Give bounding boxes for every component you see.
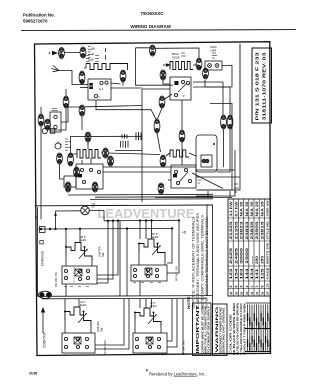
P6b stub bbox=[122, 82, 124, 86]
svg-text:SW.: SW. bbox=[99, 327, 103, 332]
connector P6 bbox=[79, 71, 85, 84]
E3 left lead bbox=[71, 153, 77, 155]
svg-text:6.7 KW: 6.7 KW bbox=[234, 201, 238, 217]
harness bottom bar bbox=[245, 351, 270, 353]
connector P1 bbox=[59, 48, 65, 59]
diagram outer frame bbox=[35, 42, 271, 356]
rail 2 bbox=[42, 297, 207, 300]
E4 leads bbox=[166, 153, 170, 156]
svg-text:COOKTOP: COOKTOP bbox=[43, 332, 47, 348]
svg-text:STYLE NO.: STYLE NO. bbox=[266, 220, 270, 239]
connector P3 bbox=[150, 45, 156, 56]
svg-text:23835: 23835 bbox=[250, 221, 254, 239]
chassis ground connector bbox=[39, 291, 52, 298]
svg-text:1500: 1500 bbox=[245, 248, 249, 264]
svg-text:141: 141 bbox=[255, 268, 259, 279]
junction m bbox=[171, 227, 173, 229]
lamp wire left bbox=[56, 210, 81, 212]
loop inner wire2 bbox=[229, 87, 231, 115]
box2 X switch mark bbox=[145, 268, 152, 275]
wire y106 to spine bbox=[85, 106, 142, 107]
B2 left lead bbox=[163, 80, 170, 84]
ratings table bbox=[228, 199, 271, 296]
svg-text:LF 8": LF 8" bbox=[150, 303, 156, 305]
clock block bbox=[88, 79, 111, 100]
LR surface unit bbox=[65, 307, 91, 326]
broil left lead bbox=[163, 64, 166, 66]
terminal arrow L1 bbox=[52, 51, 58, 55]
sw2 leads bbox=[138, 253, 140, 266]
enclosure lower feed bbox=[142, 88, 170, 90]
svg-text:250: 250 bbox=[255, 256, 259, 264]
connector P12 bbox=[57, 153, 63, 164]
svg-text:ELEM.: ELEM. bbox=[150, 306, 157, 308]
mid drops2 bbox=[126, 229, 128, 297]
diagonal wire B4 to loop bbox=[192, 173, 223, 189]
svg-text:TEO6X0XC: TEO6X0XC bbox=[141, 11, 165, 16]
svg-text:8: 8 bbox=[234, 286, 238, 288]
wire P3 to P4 bbox=[155, 48, 199, 58]
sw3 leads2 bbox=[90, 326, 92, 334]
B1 left lead a bbox=[80, 84, 88, 86]
harness bundle wires bbox=[248, 305, 271, 352]
svg-text:GAGE: GAGE bbox=[266, 267, 270, 279]
connector P13b bbox=[74, 167, 80, 177]
junction k bbox=[145, 219, 147, 221]
table row lines bbox=[233, 199, 264, 296]
RF infinite switch bbox=[131, 265, 167, 281]
svg-text:R P: R P bbox=[99, 88, 104, 92]
harness bundle top bar bbox=[246, 302, 270, 304]
rail 1 bbox=[38, 295, 213, 298]
loop inner wire bbox=[222, 82, 224, 115]
svg-text:144: 144 bbox=[245, 268, 249, 279]
svg-text:38: 38 bbox=[234, 291, 238, 295]
svg-text:23815: 23815 bbox=[260, 221, 264, 239]
thermostat block bbox=[170, 77, 191, 100]
element label marks bbox=[86, 56, 99, 62]
svg-text:34: 34 bbox=[245, 291, 249, 295]
svg-text:3: 3 bbox=[255, 286, 259, 288]
loop stub right bbox=[229, 191, 231, 198]
broil right lead bbox=[193, 64, 199, 66]
wire label blob cluster bbox=[121, 141, 129, 149]
svg-text:WIRING DIAGRAM: WIRING DIAGRAM bbox=[130, 24, 170, 29]
right drop x240 bbox=[196, 155, 240, 190]
svg-text:4.1 KW: 4.1 KW bbox=[229, 201, 233, 217]
svg-text:TO CONDUIT BOX SUPPLY: TO CONDUIT BOX SUPPLY bbox=[208, 305, 211, 354]
B1 right wires bbox=[111, 87, 142, 89]
svg-text:WATTS 240: WATTS 240 bbox=[266, 242, 270, 264]
svg-text:NECESSARY, COMPARABLE WIRE, T: NECESSARY, COMPARABLE WIRE, TERMINALS bbox=[201, 215, 205, 309]
connector P4 bbox=[196, 58, 202, 70]
junction f bbox=[107, 220, 109, 222]
sw3 leads bbox=[64, 321, 66, 334]
B3 top lead 1 bbox=[81, 160, 83, 164]
door switch right wire bbox=[61, 107, 82, 122]
cooktop arrow bbox=[41, 307, 45, 313]
svg-text:2485: 2485 bbox=[234, 248, 238, 264]
svg-text:N/A 30: N/A 30 bbox=[245, 201, 249, 216]
connector P23 bbox=[159, 96, 165, 108]
cooktop drop bbox=[42, 319, 44, 334]
B1 bottom lead bbox=[95, 100, 97, 103]
svg-text:BK: BK bbox=[92, 48, 96, 51]
sw1 feed b bbox=[79, 229, 81, 243]
connector P7 bbox=[160, 70, 166, 80]
svg-text:SURF. KW: SURF. KW bbox=[266, 200, 270, 216]
B2 bottom to P25 bbox=[181, 100, 183, 130]
svg-text:21325: 21325 bbox=[229, 221, 233, 239]
selector lever bbox=[179, 172, 188, 182]
sw4 leads bbox=[134, 322, 136, 334]
B2 to P23 lead bbox=[165, 94, 172, 99]
sw4 spine link bbox=[182, 299, 184, 355]
svg-text:123: 123 bbox=[229, 268, 233, 279]
marks above table bbox=[234, 184, 239, 192]
harness labels upper bbox=[247, 313, 271, 330]
junction lamp drop bbox=[54, 214, 56, 216]
bundle wire b bbox=[95, 196, 213, 199]
svg-text:5995272670: 5995272670 bbox=[23, 18, 48, 23]
connector P6b bbox=[120, 70, 126, 82]
svg-text:Publication No.: Publication No. bbox=[23, 13, 55, 18]
sw4 feed a bbox=[139, 299, 141, 308]
svg-text:350: 350 bbox=[260, 256, 264, 264]
svg-text:SERVICE: IF REPLACEMENT OF TE: SERVICE: IF REPLACEMENT OF TERMINALS bbox=[192, 217, 196, 309]
header rule bbox=[21, 30, 296, 31]
box1 X switch mark bbox=[75, 269, 82, 276]
P23-P24 link bbox=[158, 108, 163, 119]
svg-text:N/A 30: N/A 30 bbox=[250, 201, 254, 216]
B4 filled terminal bbox=[173, 174, 177, 177]
svg-text:6: 6 bbox=[240, 286, 244, 288]
P11 stub bbox=[87, 142, 89, 149]
sw4 leads2 bbox=[160, 327, 162, 334]
sw2 leads2 bbox=[164, 258, 166, 266]
broil element arrow bbox=[166, 63, 171, 67]
junction g bbox=[112, 220, 114, 222]
B4 left lead bbox=[168, 179, 171, 181]
B1 right diag bbox=[111, 83, 121, 84]
bundle wire c bbox=[90, 198, 213, 201]
junction n bbox=[178, 219, 180, 221]
bake element bbox=[86, 64, 128, 71]
P9 top wire bbox=[40, 107, 42, 114]
oven light symbol bbox=[81, 206, 90, 215]
lower cross wire bbox=[155, 197, 232, 199]
svg-text:23833: 23833 bbox=[245, 221, 249, 239]
door latch box bbox=[64, 176, 76, 187]
part number box bbox=[252, 48, 272, 123]
loop stub left bbox=[207, 191, 209, 198]
chassis terminal mark bbox=[40, 241, 43, 244]
bake element left lead bbox=[84, 64, 86, 69]
svg-text:23505: 23505 bbox=[255, 221, 259, 239]
B4 right wires2 bbox=[196, 176, 240, 178]
sw2 bottom bbox=[139, 281, 141, 296]
wire code marks bbox=[88, 47, 93, 61]
svg-text:ZN: ZN bbox=[266, 284, 270, 288]
P25 to B4 bbox=[181, 142, 183, 165]
thermostat lever bbox=[178, 84, 186, 92]
sw1 feed a bbox=[65, 229, 67, 247]
svg-text:6: 6 bbox=[229, 286, 233, 288]
svg-text:N/A 35: N/A 35 bbox=[260, 201, 264, 216]
P10 lower bbox=[81, 116, 83, 130]
svg-text:ST: ST bbox=[266, 291, 270, 295]
box terminal label marks bbox=[64, 283, 164, 355]
important box bbox=[193, 303, 212, 356]
lamp left drop bbox=[55, 211, 57, 229]
upper surface element bbox=[77, 150, 101, 159]
connector P25 bbox=[179, 130, 185, 142]
svg-text:NOTE:: NOTE: bbox=[187, 295, 191, 309]
svg-text:23823: 23823 bbox=[240, 221, 244, 239]
svg-text:8: 8 bbox=[260, 286, 264, 288]
door switch marks bbox=[52, 109, 58, 111]
junction e bbox=[79, 228, 81, 230]
door switch block bbox=[50, 112, 61, 132]
box4 X switch mark bbox=[146, 337, 153, 344]
connector P5 bbox=[203, 68, 209, 79]
sw1 right feeds bbox=[97, 221, 108, 283]
sw4 feed b bbox=[145, 299, 147, 308]
svg-text:134: 134 bbox=[250, 268, 254, 279]
top feed corner wire bbox=[136, 48, 173, 85]
svg-text:LEADVENTURE: LEADVENTURE bbox=[98, 206, 195, 221]
sw4 right feed bbox=[167, 299, 172, 341]
RF surface unit bbox=[139, 239, 165, 258]
svg-text:RR INF. SW.: RR INF. SW. bbox=[54, 271, 58, 287]
svg-text:ELEM.: ELEM. bbox=[80, 240, 87, 242]
B4 right wires bbox=[196, 169, 235, 171]
svg-text:CHASSIS: CHASSIS bbox=[41, 250, 45, 266]
svg-text:125: 125 bbox=[260, 268, 264, 279]
connector P8 bbox=[63, 96, 69, 108]
svg-text:C: C bbox=[99, 95, 101, 99]
connector P13 bbox=[68, 153, 74, 166]
P9 bottom wire bbox=[40, 126, 42, 220]
connector P15 bbox=[108, 156, 114, 166]
sw1 right feeds3 bbox=[97, 221, 118, 275]
P8 lower wire bbox=[50, 108, 66, 130]
B1 left lead b bbox=[80, 87, 88, 89]
wire arrow to connector bbox=[58, 52, 62, 54]
E3 to right bbox=[108, 153, 160, 155]
sw2 feed c bbox=[151, 221, 153, 240]
junction j bbox=[139, 219, 141, 221]
svg-text:L2: L2 bbox=[183, 230, 187, 234]
svg-text:4: 4 bbox=[245, 286, 249, 288]
svg-text:WARNING: WARNING bbox=[215, 306, 219, 353]
junction l bbox=[150, 219, 152, 221]
broil tick marks bbox=[181, 53, 186, 56]
junction d bbox=[65, 228, 67, 230]
P12 down bbox=[60, 164, 65, 179]
P24 down link bbox=[157, 133, 161, 152]
svg-text:38: 38 bbox=[229, 291, 233, 295]
connector P2 bbox=[80, 47, 86, 58]
connector P16 bbox=[160, 155, 166, 167]
right spine bbox=[212, 206, 214, 356]
sw1 right feeds2 bbox=[97, 221, 113, 279]
svg-text:N/A 25: N/A 25 bbox=[255, 201, 259, 216]
spine2 bbox=[206, 204, 208, 296]
svg-text:2425: 2425 bbox=[229, 248, 233, 264]
junction h bbox=[117, 220, 119, 222]
left drop bbox=[37, 207, 39, 296]
wire splay to element bbox=[59, 71, 80, 85]
svg-text:3000: 3000 bbox=[240, 248, 244, 264]
svg-text:33: 33 bbox=[255, 291, 259, 295]
connector P10 bbox=[79, 105, 85, 116]
svg-text:———: ——— bbox=[250, 256, 254, 264]
svg-text:01/96: 01/96 bbox=[29, 371, 37, 375]
B2 filled terminal bbox=[175, 81, 179, 85]
B2 right wire 2 bbox=[193, 86, 230, 88]
tick marks near B4 right bbox=[198, 177, 202, 183]
connector P22 bbox=[227, 115, 233, 129]
light label marks bbox=[65, 139, 71, 150]
E3 right wire bbox=[101, 152, 103, 154]
svg-text:LR INF. SW.: LR INF. SW. bbox=[103, 340, 107, 355]
sw3 feed b bbox=[78, 299, 80, 307]
B4 to loop wire1 bbox=[103, 166, 196, 168]
LF infinite switch bbox=[133, 333, 167, 353]
broil element bbox=[170, 62, 193, 70]
sw2 right feed bbox=[167, 228, 172, 263]
loop outer bbox=[198, 104, 232, 191]
svg-text:2600W: 2600W bbox=[172, 57, 180, 60]
box3 X switch mark bbox=[74, 337, 81, 344]
upper section boundary line bbox=[35, 204, 213, 207]
harness labels lower bbox=[247, 336, 271, 351]
selector block bbox=[171, 165, 196, 188]
B4 to loop wire2 bbox=[103, 171, 171, 173]
RR infinite switch bbox=[62, 266, 97, 284]
svg-text:21355: 21355 bbox=[234, 221, 238, 239]
svg-text:1: 1 bbox=[250, 286, 254, 288]
sw1 dashed divider bbox=[73, 267, 75, 283]
E4 right lead bbox=[189, 153, 196, 156]
connector P14 bbox=[103, 148, 109, 158]
junction b bbox=[49, 228, 51, 230]
lower broil element bbox=[170, 150, 189, 157]
table column lines bbox=[228, 218, 271, 289]
svg-text:38: 38 bbox=[260, 291, 264, 295]
small square component bbox=[50, 129, 55, 134]
B2 right wire 1 bbox=[193, 81, 223, 83]
mid drops bbox=[119, 221, 121, 297]
B1 drop to y110 bbox=[96, 103, 157, 120]
LR infinite switch bbox=[62, 333, 95, 353]
receptacle tick marks bbox=[212, 53, 217, 58]
mid spine x142 bbox=[141, 89, 143, 202]
sw2 feed b bbox=[145, 221, 147, 239]
svg-text:RF 8": RF 8" bbox=[152, 234, 158, 236]
svg-text:RR 6": RR 6" bbox=[80, 237, 86, 239]
P8 wires bbox=[65, 89, 67, 96]
junction c bbox=[54, 228, 56, 230]
receptacle connector box bbox=[201, 143, 215, 167]
sw3 feed a bbox=[64, 299, 66, 312]
svg-text:IMPORTANT: IMPORTANT bbox=[195, 305, 200, 354]
sw3 right feed2 bbox=[95, 299, 129, 349]
connector P9b bbox=[45, 119, 51, 130]
right drop x235 bbox=[196, 150, 235, 196]
P22 down bbox=[217, 129, 230, 172]
wire y136 bbox=[71, 136, 143, 153]
svg-text:P/N 131 S 018 F 233: P/N 131 S 018 F 233 bbox=[254, 52, 259, 121]
bus upper bbox=[104, 219, 180, 222]
connector P11 bbox=[85, 132, 91, 142]
terminal block on bus bbox=[40, 227, 46, 233]
svg-text:OVEN: OVEN bbox=[210, 47, 217, 49]
sw2 feed a bbox=[139, 221, 141, 239]
cross wire y150 bbox=[115, 150, 142, 152]
sw4 right feed2 bbox=[167, 299, 177, 347]
svg-text:LT.: LT. bbox=[92, 206, 95, 209]
wire label blobs y136 bbox=[122, 132, 141, 140]
svg-text:LF INF. SW.: LF INF. SW. bbox=[182, 340, 186, 355]
B3 top lead 2 bbox=[90, 158, 92, 164]
lamp wire right bbox=[89, 209, 104, 211]
wire receptacle right bbox=[205, 66, 232, 88]
connector P24 bbox=[154, 119, 160, 133]
upper section right boundary bbox=[239, 44, 241, 155]
LF surface unit bbox=[135, 308, 161, 327]
svg-text:TYPE, GAGE AND TERMINALS MUST: TYPE, GAGE AND TERMINALS MUST BE USED. bbox=[205, 216, 209, 309]
svg-text:31: 31 bbox=[250, 291, 254, 295]
sw1 leads2 bbox=[91, 261, 93, 266]
connector P19 bbox=[92, 182, 98, 192]
warning box bbox=[213, 304, 228, 356]
svg-text:SERVICING UNIT. GROUND.: SERVICING UNIT. GROUND. bbox=[223, 307, 226, 353]
connector P20 bbox=[158, 183, 164, 194]
sw1 leads bbox=[65, 256, 67, 266]
connector P18 bbox=[65, 182, 71, 192]
svg-text:LAMP: LAMP bbox=[210, 50, 217, 53]
svg-text:P: P bbox=[183, 94, 185, 98]
small circle component bbox=[42, 128, 47, 133]
RR surface unit bbox=[66, 243, 92, 262]
svg-text:318111-1070 REV. 03: 318111-1070 REV. 03 bbox=[262, 52, 267, 121]
svg-text:154: 154 bbox=[234, 268, 238, 279]
harness mid bar bbox=[245, 328, 270, 330]
svg-text:N/A 30: N/A 30 bbox=[240, 201, 244, 216]
sw2 right feed2 bbox=[167, 220, 179, 273]
wire P1-P2 bbox=[64, 52, 80, 54]
sw3 right feed bbox=[95, 299, 124, 345]
oven thermostat block bbox=[76, 164, 103, 189]
bundle wire a bbox=[68, 193, 213, 196]
bus main bbox=[39, 227, 173, 230]
sw4 feed c bbox=[151, 299, 153, 308]
svg-text:Rendered by LeadVenture, Inc.: Rendered by LeadVenture, Inc. bbox=[149, 371, 206, 376]
junction a bbox=[40, 228, 42, 230]
svg-text:ELEM.: ELEM. bbox=[80, 305, 87, 307]
svg-text:6: 6 bbox=[146, 368, 148, 372]
sw1 bottom bbox=[65, 284, 67, 296]
junction i bbox=[126, 227, 128, 229]
indicator light bbox=[55, 142, 62, 150]
stray tick marks bbox=[105, 48, 107, 60]
svg-text:SW.: SW. bbox=[101, 252, 105, 257]
oven lamp receptacle bbox=[205, 61, 222, 70]
chassis lead splay bbox=[52, 66, 60, 72]
svg-text:IS NECESSARY, TERMINALS AND W: IS NECESSARY, TERMINALS AND WIRE RECIPES bbox=[196, 213, 200, 309]
